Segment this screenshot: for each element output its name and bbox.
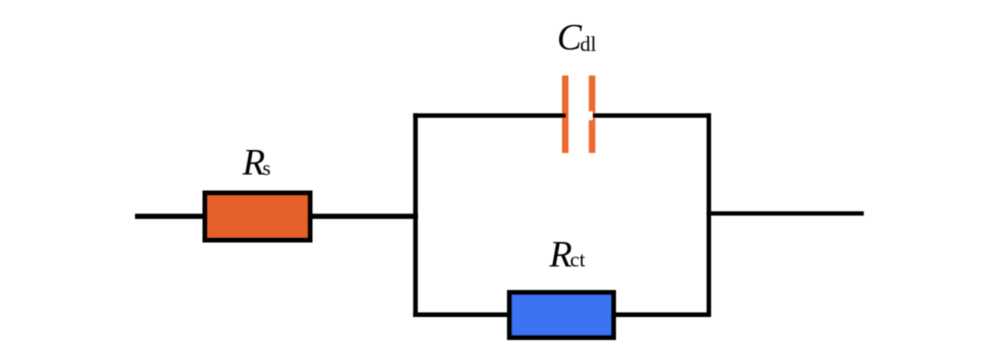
wire loop top right (from capacitor) [593, 113, 712, 118]
wire input left segment [135, 214, 205, 219]
wire loop bottom [413, 312, 711, 317]
svg-text:s: s [263, 156, 271, 180]
capacitor C_dl plates [562, 76, 595, 154]
wire output [707, 211, 864, 215]
svg-text:dl: dl [580, 32, 597, 56]
wire loop left vertical [413, 113, 418, 317]
wire loop top left (to capacitor) [413, 113, 566, 118]
svg-text:ct: ct [570, 248, 585, 272]
wire loop right vertical [707, 113, 712, 317]
svg-text:R: R [549, 235, 573, 276]
resistor Rct [510, 293, 614, 338]
wire Rs to parallel loop [310, 214, 418, 219]
resistor Rs [205, 193, 310, 240]
